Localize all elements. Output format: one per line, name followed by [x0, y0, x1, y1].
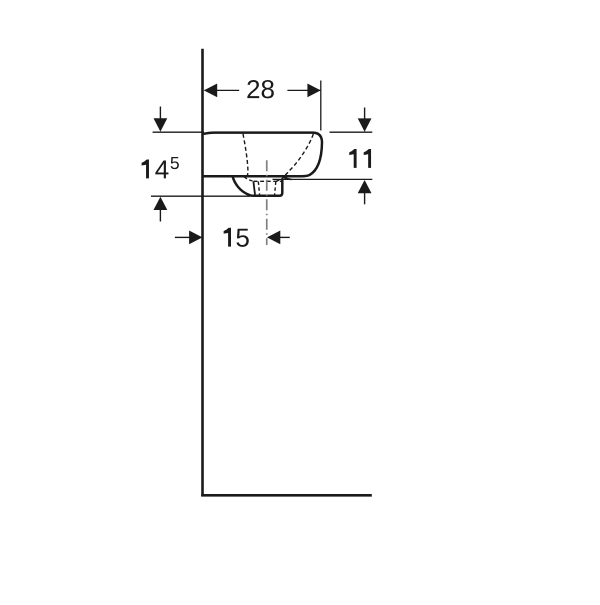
- bowl-to-drain hidden connector right: [277, 177, 285, 181]
- dimension 11 lower arrow tail: [364, 193, 366, 205]
- bowl-to-drain hidden connector left: [244, 177, 253, 181]
- basin inner bowl hidden line left: [243, 134, 248, 178]
- dimension 28 line left segment: [205, 89, 240, 91]
- dimension 14.5 lower arrow tail: [159, 210, 161, 222]
- drain centerline: [266, 160, 268, 245]
- dimension 28 line right segment: [287, 89, 320, 91]
- dimension 11 lower arrowhead: [358, 180, 372, 193]
- dimension 15 left arrowhead: [189, 231, 202, 245]
- dimension 14.5 upper arrowhead: [154, 118, 168, 131]
- dimension 15 right arrow tail: [280, 236, 290, 238]
- drain hidden top line: [254, 180, 282, 182]
- drain boss solid left edge: [253, 181, 255, 194]
- dimension 11 lower extension line: [273, 178, 373, 180]
- trap cover outline: [233, 176, 283, 196]
- dimension 14.5 lower extension line: [151, 195, 250, 197]
- dimension 15 text: [224, 228, 249, 247]
- wall line: [201, 49, 204, 497]
- basin underside spur curve: [282, 176, 292, 179]
- dimension 15 left arrow tail: [175, 236, 190, 238]
- dimension 11 text: [349, 149, 371, 168]
- drain hidden right vertical: [275, 181, 276, 194]
- basin inner bowl hidden line right: [284, 134, 313, 176]
- floor line: [201, 494, 372, 497]
- dimension 11 upper extension line: [330, 131, 373, 133]
- dimension 14.5 lower arrowhead: [154, 197, 168, 210]
- dimension 14.5 text: [142, 157, 179, 178]
- dimension 28 extension line: [320, 81, 322, 131]
- dimension 11 upper arrowhead: [358, 118, 372, 131]
- basin outline: [204, 133, 323, 177]
- dimension 28 text: [247, 80, 273, 98]
- dimension 15 right arrowhead: [267, 231, 280, 245]
- dimension 28 right arrowhead: [307, 84, 320, 98]
- drain hidden left vertical: [258, 181, 259, 194]
- dimension 28 left arrowhead: [204, 84, 217, 98]
- dimension 14.5 upper arrow tail: [159, 107, 161, 120]
- dimension 14.5 upper extension line: [153, 131, 204, 133]
- dimension 11 upper arrow tail: [364, 108, 366, 120]
